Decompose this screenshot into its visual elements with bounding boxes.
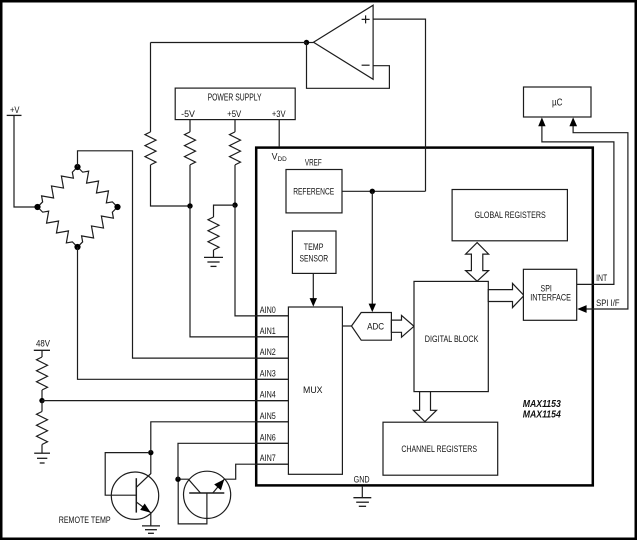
wire node to AIN0 [235,205,288,316]
wire GND stub [361,486,363,498]
svg-text:AIN2: AIN2 [260,347,276,357]
ground 48V divider [34,453,50,463]
wire divider branch [214,205,236,217]
svg-text:VREF: VREF [305,157,322,167]
wire Q1 to AIN5 [151,422,289,453]
resistor on op-amp output line [145,132,156,165]
node bridge right [114,204,120,210]
wire to node [41,390,43,401]
wire +5V drop [234,120,236,132]
wire bridge bottom to AIN3 [78,247,289,379]
pin line AIN7 [255,463,288,465]
pin line AIN6 [255,442,288,444]
wire 48V to resistor [41,350,43,357]
global registers block [452,190,567,241]
resistor 48V lower [37,412,48,445]
svg-text:AIN0: AIN0 [260,305,276,315]
node +5V divider [232,202,237,207]
wire +3V to VDD pin [278,120,280,147]
bridge resistor top-right [74,163,121,210]
bus arrow digital block to SPI [488,283,524,307]
svg-text:AIN6: AIN6 [260,432,276,442]
wire op-amp output to gain resistor [151,42,307,44]
pin line AIN2 [255,357,288,359]
wire +5V resistor to node [234,165,236,205]
svg-text:POWER SUPPLY: POWER SUPPLY [208,93,262,104]
svg-text:48V: 48V [36,338,51,349]
svg-text:DIGITAL BLOCK: DIGITAL BLOCK [425,333,479,344]
wire INT: SPI interface to microcontroller [542,126,614,285]
node Q2 base-collector [175,477,180,482]
svg-text:+V: +V [10,104,20,115]
power supply box [175,88,295,120]
svg-text:GLOBAL REGISTERS: GLOBAL REGISTERS [474,209,545,220]
wire resistor to ground [213,250,215,257]
op-amp U1 [314,5,374,79]
wire reference output [342,190,426,192]
wire op-amp output stub to node [307,42,314,44]
pin line AIN5 [255,421,288,423]
svg-text:ADC: ADC [367,321,384,332]
wire node to AIN4 [42,400,288,402]
reference block [286,170,342,213]
bridge resistor bottom-right [74,203,121,250]
bus arrow digital block to channel registers [413,392,436,422]
bridge resistor top-left [34,163,81,210]
svg-text:AIN7: AIN7 [260,453,276,463]
svg-text:SPI I/F: SPI I/F [596,297,620,308]
wire vref to ADC [371,191,373,304]
ground Q1 emitter [142,526,160,533]
svg-text:AIN3: AIN3 [260,368,276,378]
temp sensor block [292,231,336,273]
transistor Q1 (remote temp) [105,453,159,526]
node bridge top [74,164,80,170]
wire Q2 to AIN6 [178,443,288,479]
svg-text:REFERENCE: REFERENCE [293,185,334,196]
pin line AIN4 [255,400,288,402]
ground GND pin [353,498,371,507]
wire MUX to ADC [342,325,351,327]
ADC block [352,313,392,341]
wire temp sensor to MUX [312,273,314,299]
wire to ground [41,445,43,454]
svg-text:TEMP: TEMP [304,241,324,252]
wire -5V drop [189,120,191,132]
chip outline MAX1153/MAX1154 [256,148,593,486]
node Q1 base-collector [148,450,153,455]
wire op-amp resistor to node [151,165,191,206]
svg-text:GND: GND [354,473,370,484]
bus arrow global registers / digital block [466,243,489,282]
svg-text:MAX1153: MAX1153 [523,399,561,410]
svg-text:+5V: +5V [227,108,242,119]
wire noninverting input to VREF line [373,19,425,191]
resistor divider lower [208,217,219,250]
wire op-amp resistor drop [150,43,152,132]
svg-text:REMOTE TEMP: REMOTE TEMP [59,514,111,525]
svg-text:AIN1: AIN1 [260,326,276,336]
bridge resistor bottom-left [34,203,81,250]
node AIN1 join [187,203,192,208]
node 48V divider [39,398,44,403]
svg-text:-5V: -5V [181,108,195,119]
digital block [414,281,488,391]
wire SPI I/F: microcontroller to SPI interface [573,126,628,309]
resistor on +5V line [230,132,241,165]
bus arrow ADC to digital block [391,315,414,337]
MUX block [288,307,342,474]
pin line AIN1 [255,336,288,338]
svg-text:CHANNEL REGISTERS: CHANNEL REGISTERS [401,443,477,454]
wire -5V resistor to node [189,165,191,206]
svg-text:AIN5: AIN5 [260,411,276,421]
wire node down [41,401,43,412]
wire feedback loop to inverting input [307,43,390,89]
svg-text:SENSOR: SENSOR [300,253,329,264]
svg-text:INTERFACE: INTERFACE [530,291,571,302]
wire node to AIN1 [190,206,288,337]
svg-text:MUX: MUX [303,384,323,395]
resistor on -5V line [185,132,196,165]
pin line AIN3 [255,378,288,380]
wire +V to bridge left vertex [14,115,38,207]
channel registers block [383,422,498,475]
resistor 48V upper [37,357,48,390]
transistor Q2 [178,464,288,524]
SPI interface block [523,269,576,320]
microcontroller box [524,87,592,117]
svg-text:MAX1154: MAX1154 [523,410,561,421]
ground divider [204,257,223,266]
node bridge left [34,204,40,210]
svg-text:INT: INT [596,272,607,283]
svg-text:µC: µC [552,98,563,109]
wire bridge top to AIN2 [78,151,289,358]
pin line AIN0 [255,315,288,317]
node op-amp output [304,40,309,45]
node bridge bottom [74,244,80,250]
node vref [370,189,375,194]
svg-text:+3V: +3V [272,108,286,119]
svg-text:AIN4: AIN4 [260,390,276,400]
